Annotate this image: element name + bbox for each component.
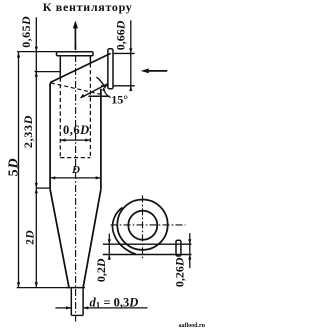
dimension 0,2D	[108, 234, 111, 260]
svg-text:0,66D: 0,66D	[114, 20, 128, 50]
blower horizontal centerline	[111, 224, 186, 226]
exhaust pipe right wall (visible)	[89, 56, 91, 64]
svg-text:2,33D: 2,33D	[21, 115, 35, 148]
svg-text:2D: 2D	[24, 230, 36, 245]
body left wall	[49, 84, 51, 190]
dimension d1 right with label line	[83, 306, 148, 309]
dimension D	[50, 176, 101, 179]
dimension d1 left	[55, 306, 71, 309]
exhaust pipe flange	[57, 52, 94, 56]
svg-text:0,65D: 0,65D	[19, 16, 33, 48]
svg-text:0,6D: 0,6D	[63, 123, 90, 137]
svg-text:15°: 15°	[111, 92, 128, 106]
inner dimension line (0,65D / 2,33D / 2D)	[35, 17, 38, 287]
blower outer circle	[117, 200, 167, 250]
cone left wall	[50, 189, 69, 287]
exhaust pipe left wall hidden (dashed)	[59, 77, 61, 157]
blower outlet duct bottom line	[103, 254, 192, 256]
exhaust pipe right wall hidden (dashed)	[89, 63, 91, 157]
dimension 0,26D	[188, 233, 191, 268]
helix hidden edge (dashed slant)	[51, 83, 101, 94]
extension line cone bottom	[17, 287, 66, 289]
dust outlet pipe bottom	[71, 314, 83, 316]
inlet duct bottom line	[113, 85, 135, 87]
inlet duct bottom left of flange	[101, 85, 108, 87]
spiral roof upper edge	[51, 53, 111, 82]
svg-text:0,2D: 0,2D	[94, 258, 108, 282]
blower vertical centerline	[142, 195, 144, 258]
body right wall	[100, 89, 102, 190]
inlet flow arrow	[141, 69, 168, 74]
extension line flange top	[17, 51, 57, 53]
15 deg leader arc	[102, 87, 110, 97]
cyclone axis centerline	[75, 42, 77, 322]
dimension 0,66D line	[129, 20, 132, 91]
arrow to fan (up arrow)	[73, 21, 78, 51]
exhaust pipe bottom hidden (dashed)	[60, 157, 90, 159]
cone right wall	[83, 189, 101, 287]
svg-text:D: D	[71, 164, 80, 176]
blower outlet flange	[176, 240, 181, 256]
blower inner circle	[128, 211, 157, 240]
cone bottom edge	[65, 287, 85, 289]
extension line body top	[35, 71, 61, 73]
dust outlet pipe right wall	[82, 288, 84, 315]
dimension line 5D	[17, 52, 20, 287]
dimension 0,6D	[60, 139, 90, 142]
inlet flange	[108, 49, 113, 89]
svg-text:5D: 5D	[6, 158, 21, 177]
inlet duct top line	[113, 52, 135, 54]
svg-text:0,26D: 0,26D	[172, 257, 186, 287]
svg-text:aaflood.ru: aaflood.ru	[178, 323, 205, 329]
roof lower edge 15 deg line with arrow	[80, 84, 108, 99]
scroll bottom edge	[88, 95, 109, 97]
volute roof curve	[96, 77, 105, 88]
extension line cone top	[36, 187, 50, 189]
svg-text:d1 = 0,3D: d1 = 0,3D	[90, 296, 139, 311]
exhaust pipe left wall (visible)	[59, 56, 61, 78]
svg-text:К вентилятору: К вентилятору	[43, 0, 133, 14]
blower volute scroll curve	[113, 208, 136, 255]
blower outlet duct top line	[103, 243, 192, 245]
roof corner arc	[50, 81, 53, 85]
dust outlet pipe left wall	[70, 288, 72, 315]
